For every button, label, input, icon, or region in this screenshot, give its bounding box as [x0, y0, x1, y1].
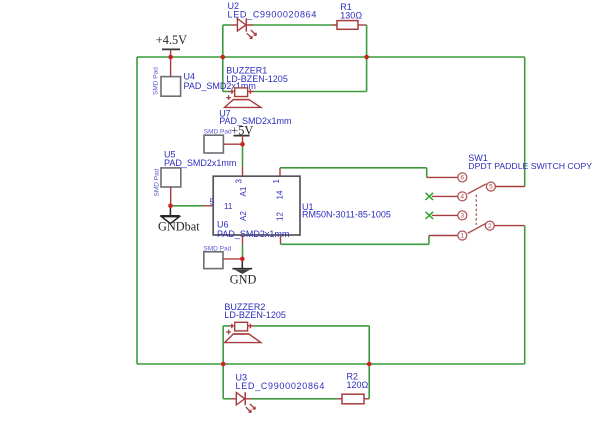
wire right top vertical — [366, 25, 368, 92]
svg-text:SMD Pad: SMD Pad — [204, 128, 232, 135]
switch SW1 pin 4 — [432, 192, 467, 201]
BUZZER2 designator label — [224, 302, 265, 312]
R2 designator label — [347, 372, 359, 382]
U5 designator label — [164, 150, 176, 160]
power +4.5V — [162, 49, 180, 57]
BUZZER2 value label LD-BZEN-1205 — [224, 310, 286, 320]
U7 value label PAD_SMD2x1mm — [219, 116, 291, 126]
svg-text:4: 4 — [461, 194, 465, 201]
node junction bottom right — [367, 362, 372, 367]
node junction +5V — [240, 142, 245, 147]
pad U5 — [161, 168, 181, 187]
wire GNDbat node to IC pin 5 — [171, 205, 214, 207]
U7 SMD Pad pin label — [204, 128, 232, 135]
wire R1 to right vertical — [358, 24, 367, 26]
net label GNDbat — [158, 219, 200, 233]
U1 pin number 5 — [210, 198, 215, 207]
node junction bottom left — [221, 362, 226, 367]
wire IC pin 12 to switch pin 1 — [281, 235, 458, 244]
U2 designator label — [228, 1, 240, 11]
net label +5V — [231, 124, 253, 138]
switch SW1 pin 2 — [485, 221, 524, 230]
U4 value label PAD_SMD2x1mm — [184, 81, 256, 91]
resistor R2 — [342, 394, 364, 404]
pad U7 — [204, 135, 223, 153]
switch SW1 lower arm — [468, 223, 486, 233]
U1 pin name 11 — [224, 202, 233, 211]
R1 designator label — [340, 2, 352, 12]
wire R2 to right bottom vertical — [364, 364, 369, 399]
wire IC pin 14 to switch pin 6 — [280, 168, 458, 178]
wire +4.5V tap to pad U4 — [170, 57, 172, 77]
wire bottom rail — [137, 363, 525, 365]
BUZZER1 designator label — [226, 66, 267, 76]
SW1 designator label — [468, 153, 488, 163]
switch SW1 upper arm — [468, 184, 487, 194]
wire buzzer2 right segment — [248, 326, 370, 364]
svg-text:LED_C9900020864: LED_C9900020864 — [236, 381, 326, 391]
svg-text:6: 6 — [461, 175, 465, 182]
BUZZER1 value label LD-BZEN-1205 — [226, 74, 288, 84]
U1 pin name 14 — [276, 190, 285, 199]
svg-text:3: 3 — [234, 179, 243, 184]
switch SW1 pin 6 — [458, 173, 467, 182]
svg-text:14: 14 — [276, 190, 285, 199]
U1 pin number 1 — [272, 179, 281, 184]
svg-text:LED_C9900020864: LED_C9900020864 — [228, 9, 318, 19]
U1 designator label — [302, 202, 314, 212]
U3 value label LED_C9900020864 — [236, 381, 326, 391]
svg-text:GNDbat: GNDbat — [158, 219, 200, 233]
LED U3 — [236, 392, 255, 412]
node junction at +4.5V tap — [168, 55, 173, 60]
U3 designator label — [236, 373, 248, 383]
svg-text:GND: GND — [230, 273, 257, 287]
net label +4.5V — [156, 33, 187, 47]
svg-text:PAD_SMD2x1mm: PAD_SMD2x1mm — [219, 116, 291, 126]
U4 designator label — [184, 72, 196, 82]
svg-text:A2: A2 — [239, 211, 248, 221]
svg-text:SMD Pad: SMD Pad — [203, 245, 231, 252]
wire buzzer1 right segment — [248, 91, 367, 93]
svg-text:LD-BZEN-1205: LD-BZEN-1205 — [224, 310, 286, 320]
node junction GNDbat — [168, 204, 173, 209]
svg-text:1: 1 — [461, 233, 465, 240]
svg-text:SMD Pad: SMD Pad — [154, 168, 161, 196]
svg-text:PAD_SMD2x1mm: PAD_SMD2x1mm — [217, 229, 289, 239]
no-connect X on pin 4 — [426, 193, 434, 200]
U1 value label RM50N-3011-85-1005 — [302, 209, 391, 219]
wire IC pin A2 to GND node — [242, 235, 244, 259]
U1 pin name A1 — [239, 186, 248, 196]
wire buzzer1 left branch — [223, 57, 235, 92]
R2 value label 120 ohm — [347, 380, 369, 390]
svg-text:12: 12 — [276, 212, 285, 221]
U6 SMD Pad pin label — [203, 245, 231, 252]
wire top rail — [137, 56, 367, 58]
U4 SMD Pad pin label — [153, 67, 160, 95]
svg-text:2: 2 — [488, 223, 492, 230]
wire buzzer2 left branch — [223, 326, 235, 364]
node junction top LED branch — [221, 55, 226, 60]
wire LED U2 cathode to R1 — [246, 24, 337, 26]
svg-text:+4.5V: +4.5V — [156, 33, 187, 47]
node junction GND — [240, 257, 245, 262]
U7 designator label — [219, 108, 231, 118]
svg-text:LD-BZEN-1205: LD-BZEN-1205 — [226, 74, 288, 84]
svg-text:PAD_SMD2x1mm: PAD_SMD2x1mm — [164, 158, 236, 168]
svg-text:11: 11 — [224, 202, 233, 211]
svg-text:130Ω: 130Ω — [340, 10, 362, 20]
no-connect X on pin 3 — [426, 212, 434, 219]
svg-text:5: 5 — [489, 184, 493, 191]
net label GND — [230, 273, 257, 287]
U1 pin name A2 — [239, 211, 248, 221]
U5 SMD Pad pin label — [154, 168, 161, 196]
U6 value label PAD_SMD2x1mm — [217, 229, 289, 239]
wire +5V node to IC pin 3 — [242, 144, 244, 176]
svg-text:A1: A1 — [239, 186, 248, 196]
svg-text:SMD Pad: SMD Pad — [153, 67, 160, 95]
wire left rail — [136, 57, 138, 364]
switch SW1 pin 1 — [458, 231, 467, 240]
ground GNDbat — [160, 206, 180, 224]
resistor R1 — [337, 21, 358, 30]
svg-text:+5V: +5V — [231, 124, 253, 138]
wire LED U3 to R2 — [245, 398, 342, 400]
switch SW1 pin 3 — [432, 211, 467, 220]
wire LED U2 anode segment — [223, 24, 238, 26]
U2 value label LED_C9900020864 — [228, 9, 318, 19]
wire LED U3 branch left vertical — [223, 364, 236, 399]
U6 designator label — [217, 220, 229, 230]
svg-text:RM50N-3011-85-1005: RM50N-3011-85-1005 — [302, 209, 391, 219]
wire pad U5 to GNDbat node — [170, 187, 172, 206]
wire pad U7 to +5V node — [223, 143, 242, 145]
U1 pin name 12 — [276, 212, 285, 221]
svg-text:1: 1 — [272, 179, 281, 184]
U5 value label PAD_SMD2x1mm — [164, 158, 236, 168]
wire top rail to switch pole 5 — [367, 57, 525, 187]
pad U6 — [204, 252, 223, 269]
pad U4 — [161, 77, 181, 97]
svg-text:DPDT PADDLE SWITCH COPY: DPDT PADDLE SWITCH COPY — [468, 161, 592, 171]
wire LED U2 branch left vertical — [222, 25, 224, 57]
buzzer BUZZER2 — [225, 322, 261, 342]
wire switch pin 2 to bottom rail — [524, 226, 526, 364]
buzzer BUZZER1 — [225, 88, 261, 108]
U1 pin number 3 — [234, 179, 243, 184]
relay U1 body — [213, 176, 300, 235]
R1 value label 130 ohm — [340, 10, 362, 20]
ground GND — [232, 259, 252, 274]
svg-text:120Ω: 120Ω — [347, 380, 369, 390]
SW1 value label DPDT PADDLE SWITCH COPY — [468, 161, 592, 171]
node junction top right — [364, 55, 369, 60]
wire pad U6 to GND node — [223, 258, 242, 260]
svg-text:3: 3 — [461, 213, 465, 220]
switch SW1 pin 5 — [486, 182, 524, 191]
power +5V — [233, 136, 249, 145]
LED U2 — [237, 18, 256, 38]
switch SW1 coupler dashed line — [475, 195, 477, 226]
svg-text:5: 5 — [210, 198, 215, 207]
